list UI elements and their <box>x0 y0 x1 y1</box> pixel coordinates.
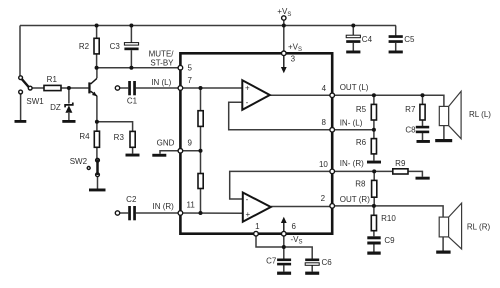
capacitor C8 <box>405 126 429 135</box>
svg-text:R1: R1 <box>47 75 58 84</box>
wire pin 11 to op-amp U1B plus input <box>180 212 242 214</box>
junction rail-R2 <box>95 24 99 28</box>
svg-text:R2: R2 <box>79 42 90 51</box>
wire R5 stems <box>373 95 375 104</box>
svg-text:C4: C4 <box>362 35 373 44</box>
resistor R3 <box>114 131 136 147</box>
junction OUT(L)-R7 <box>421 93 425 97</box>
wire base node down to zener DZ <box>68 88 70 104</box>
wire DZ to ground <box>68 113 70 120</box>
wire +Vs terminal to rail and down to pin 3 <box>283 18 285 53</box>
wire emitter node to R4 <box>96 122 98 131</box>
svg-text:6: 6 <box>292 222 297 231</box>
junction IN(R) internal <box>199 211 203 215</box>
wire R9 to ground <box>408 171 422 176</box>
svg-text:C6: C6 <box>322 258 333 267</box>
junction GND internal <box>199 149 203 153</box>
svg-text:R3: R3 <box>114 133 125 142</box>
svg-text:C8: C8 <box>405 126 416 135</box>
capacitor C7 <box>266 256 291 265</box>
svg-text:R8: R8 <box>355 180 366 189</box>
transistor Q1 <box>88 78 97 96</box>
wire pin 2 OUT (R) to speaker <box>332 206 443 217</box>
capacitor C4 <box>346 35 372 53</box>
pin 8 <box>321 118 334 132</box>
wire C3 stem top <box>130 26 132 43</box>
junction rail-C3 <box>129 24 133 28</box>
ground below SW2 <box>89 189 106 192</box>
wire speaker RL(R) to ground <box>442 237 444 251</box>
junction rail-pin3 <box>282 24 286 28</box>
wire internal resistor stems lower <box>200 151 202 174</box>
+Vs arrow into pin 3 <box>281 43 302 74</box>
svg-text:ST-BY: ST-BY <box>150 58 174 67</box>
svg-text:OUT (R): OUT (R) <box>340 195 370 204</box>
pin 5 <box>178 63 192 72</box>
capacitor C5 <box>389 35 415 54</box>
svg-text:+: + <box>246 210 251 219</box>
svg-text:C9: C9 <box>384 236 395 245</box>
junction IN(L) internal <box>199 86 203 90</box>
wire -Vs node to C6 <box>284 247 312 259</box>
ground for GND pin 9 <box>152 154 166 157</box>
capacitor C6 <box>305 258 332 267</box>
wire C7 to ground <box>283 265 285 271</box>
svg-text:4: 4 <box>322 84 327 93</box>
ground after R9 <box>416 177 430 180</box>
svg-text:R5: R5 <box>356 105 367 114</box>
ground below speaker RL (L) <box>435 139 452 142</box>
wire R4 bottom to SW2 <box>96 147 98 160</box>
ground below speaker RL (R) <box>436 251 450 254</box>
capacitor C1 <box>115 81 137 106</box>
svg-text:3: 3 <box>291 55 296 64</box>
svg-text:1: 1 <box>255 222 260 231</box>
svg-text:R7: R7 <box>405 105 416 114</box>
wire R1 to base node <box>61 87 88 89</box>
op-amp U1B <box>243 193 271 222</box>
wire U1B output to pin 2 <box>271 206 332 208</box>
wire GND pin 9 to ground symbol <box>160 151 180 154</box>
wire top +Vs rail <box>20 25 396 27</box>
junction emitter node <box>95 120 99 124</box>
junction -Vs node <box>282 245 286 249</box>
resistor R10 <box>371 214 396 231</box>
pin 6 <box>282 231 287 236</box>
ground below C9 <box>367 252 380 255</box>
wire pin 6 down to -Vs node <box>283 234 285 247</box>
pin 10 <box>319 160 335 174</box>
junction OUT(L)-R5 <box>372 93 376 97</box>
switch SW1 <box>19 76 45 106</box>
svg-text:IN (L): IN (L) <box>151 78 171 87</box>
wire U1A feedback to pin 8 <box>229 102 333 130</box>
junction IN-(R)-R8 <box>372 169 376 173</box>
wire SW1 bottom contact to ground <box>20 92 22 120</box>
resistor R5 <box>356 104 377 120</box>
wire emitter down to node <box>96 96 98 122</box>
junction IN-(L)-R6 <box>372 128 376 132</box>
svg-text:SW2: SW2 <box>70 157 88 166</box>
wire R3 bottom to ground <box>132 147 134 153</box>
wire pin 8 IN- (L) <box>332 129 374 131</box>
wire SW2 bottom to ground <box>97 175 99 189</box>
wire U1B feedback to pin 10 <box>230 171 333 199</box>
ground below C7 <box>277 272 291 275</box>
svg-text:-: - <box>246 98 249 107</box>
svg-text:IN (R): IN (R) <box>152 202 174 211</box>
svg-text:C7: C7 <box>266 256 277 265</box>
svg-text:+: + <box>245 83 250 92</box>
svg-text:7: 7 <box>188 76 193 85</box>
pin 3 <box>282 51 287 56</box>
svg-text:R10: R10 <box>381 214 396 223</box>
wire speaker RL(L) to ground <box>443 126 445 139</box>
wire C4 stem from rail <box>352 26 354 37</box>
svg-text:10: 10 <box>319 160 328 169</box>
speaker RL (L) <box>439 91 491 138</box>
resistor R9 <box>393 159 408 174</box>
pin 9 <box>178 139 192 154</box>
svg-text:R4: R4 <box>79 132 90 141</box>
svg-text:11: 11 <box>187 201 196 210</box>
capacitor C3 <box>110 42 139 51</box>
internal resistor lower <box>198 174 203 189</box>
wire U1A output to pin 4 <box>270 94 332 96</box>
svg-text:2: 2 <box>321 194 326 203</box>
ground below R6 <box>367 161 381 164</box>
resistor R6 <box>356 138 377 154</box>
svg-text:8: 8 <box>321 118 326 127</box>
op-amp U1A <box>242 80 269 110</box>
svg-text:OUT (L): OUT (L) <box>340 83 369 92</box>
resistor R4 <box>79 131 99 147</box>
wire internal resistor stems upper <box>200 88 202 111</box>
wire R6 stems <box>373 130 375 139</box>
capacitor C2 <box>115 195 137 221</box>
junction mute-C3 <box>129 66 133 70</box>
wire pin 7 to op-amp U1A plus input <box>180 87 242 89</box>
wire SW1 common to R1 <box>32 87 44 89</box>
wire R2 bottom to mute node <box>96 54 98 68</box>
svg-text:9: 9 <box>188 139 193 148</box>
junction base node <box>67 86 71 90</box>
speaker RL (R) <box>439 203 490 249</box>
wire R7 stem to C8 <box>422 95 424 104</box>
pin 7 <box>178 76 192 90</box>
ground below SW1 <box>15 120 27 123</box>
svg-text:-: - <box>246 195 249 204</box>
wire R2 stem top <box>96 26 98 39</box>
svg-text:RL (R): RL (R) <box>467 222 491 231</box>
wire pin 9 internal <box>180 150 200 152</box>
-Vs arrow into pin 6 <box>281 217 303 246</box>
junction rail-C4 <box>351 24 355 28</box>
+Vs terminal <box>277 7 291 20</box>
resistor R1 <box>44 75 61 91</box>
svg-text:RL (L): RL (L) <box>469 110 491 119</box>
wire mute/st-by to pin 5 <box>97 67 181 69</box>
wire collector up to mute node <box>96 68 98 78</box>
ground below C8 <box>417 140 430 143</box>
wire R8 stems <box>373 171 375 180</box>
ground below DZ <box>62 120 75 123</box>
wire pin 10 IN- (R) to R9 <box>332 170 393 172</box>
internal resistor upper <box>198 111 203 127</box>
junction OUT(R)-R10 <box>372 204 376 208</box>
wire pin 1 to -Vs node <box>256 234 284 247</box>
wire C2 to pin 11 <box>120 212 129 214</box>
wire C3 bottom to mute node <box>130 50 132 67</box>
svg-text:IN- (R): IN- (R) <box>340 159 364 168</box>
junction mute-R2 <box>95 66 99 70</box>
capacitor C9 <box>367 236 395 245</box>
wire C7 stem <box>283 247 285 259</box>
ground below R3 <box>126 154 140 157</box>
wire C6 to ground <box>311 265 313 271</box>
svg-text:DZ: DZ <box>50 103 61 112</box>
zener diode DZ <box>50 103 73 113</box>
pin 4 <box>322 84 335 98</box>
svg-text:SW1: SW1 <box>26 97 44 106</box>
switch SW2 <box>70 157 100 177</box>
svg-text:5: 5 <box>188 63 193 72</box>
wire pin 4 OUT (L) to speaker <box>332 95 444 106</box>
IC U1 outline <box>180 53 332 233</box>
svg-text:C3: C3 <box>110 42 121 51</box>
svg-text:R6: R6 <box>356 138 367 147</box>
pin 2 <box>321 194 335 208</box>
pin 1 <box>254 231 259 236</box>
svg-text:C1: C1 <box>127 97 138 106</box>
svg-text:R9: R9 <box>395 159 406 168</box>
wire left rail down to SW1 <box>19 26 21 78</box>
resistor R2 <box>79 38 99 54</box>
resistor R7 <box>405 104 425 120</box>
svg-text:C5: C5 <box>404 35 415 44</box>
wire emitter node to R3 <box>97 122 133 132</box>
svg-text:MUTE/: MUTE/ <box>149 49 175 58</box>
wire C1 to pin 7 <box>120 87 129 89</box>
wire C9 to ground <box>373 245 375 252</box>
ground below C6 <box>305 272 319 275</box>
svg-text:GND: GND <box>157 139 175 148</box>
resistor R8 <box>355 180 377 198</box>
svg-text:IN- (L): IN- (L) <box>340 118 363 127</box>
wire R10 stems <box>373 206 375 215</box>
wire C5 stem from rail <box>395 26 397 37</box>
pin 11 <box>178 201 195 216</box>
wire C8 to ground <box>422 133 424 140</box>
svg-text:C2: C2 <box>126 195 137 204</box>
